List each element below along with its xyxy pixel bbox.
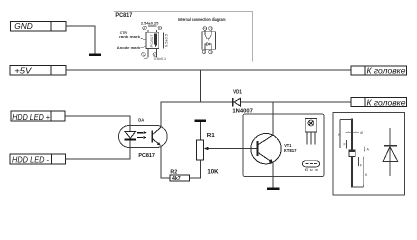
- pin number circles package: [142, 26, 162, 56]
- connector HDD LED -: [10, 154, 65, 164]
- package drawing TO-126 front view: [305, 118, 317, 144]
- dimension K right lower: [363, 157, 365, 188]
- svg-text:2.54±0.25: 2.54±0.25: [141, 21, 159, 25]
- package bottom view: [303, 161, 320, 167]
- transistor VT1: [251, 134, 281, 164]
- svg-text:К головке: К головке: [367, 66, 406, 76]
- connector GND: [11, 22, 67, 32]
- trimmer R1: [196, 140, 203, 160]
- dimension diameter: [346, 131, 360, 133]
- PC817 package outline drawing: [146, 30, 159, 57]
- svg-text:4k7: 4k7: [172, 176, 181, 182]
- svg-text:Internal connection diagram: Internal connection diagram: [178, 17, 226, 23]
- svg-text:10K: 10K: [207, 169, 219, 175]
- svg-text:PC817: PC817: [138, 153, 154, 159]
- connector К головке lower: [351, 98, 406, 107]
- diode VD1: [232, 98, 234, 107]
- internal LED symbol: [205, 42, 211, 47]
- optocoupler DA body: [119, 125, 168, 147]
- svg-text:PC817: PC817: [150, 34, 154, 47]
- internal connection diagram drawing: [202, 27, 216, 54]
- svg-text:К головке: К головке: [367, 97, 406, 107]
- svg-text:б к э: б к э: [305, 168, 319, 172]
- svg-text:rank mark: rank mark: [119, 35, 140, 39]
- opto light arrows: [137, 131, 147, 139]
- wire bar to R1 top: [199, 122, 201, 140]
- svg-text:DA: DA: [138, 118, 145, 123]
- svg-text:Ø: Ø: [360, 131, 363, 135]
- 1N4007 datasheet box: [333, 113, 405, 196]
- resistor R2: [170, 175, 190, 181]
- 1N4007 diode symbol: [389, 128, 391, 176]
- R1 wiper arrow to VT1 base: [205, 148, 258, 150]
- 1N4007 dimension drawing lead: [351, 119, 353, 188]
- wire opto collector up to VD1 line: [160, 102, 162, 128]
- opto LED: [125, 132, 135, 139]
- svg-text:VD1: VD1: [233, 90, 242, 96]
- svg-text:0.6±0.1: 0.6±0.1: [154, 57, 166, 61]
- bar terminal at R1 top: [195, 120, 207, 122]
- wire R2 to R1 bottom: [190, 177, 201, 179]
- ground VT1 emitter: [267, 188, 280, 190]
- dimension F upper: [346, 140, 348, 149]
- anode mark inside package: [154, 34, 157, 48]
- box around VT1: [243, 114, 324, 177]
- svg-text:КТ817: КТ817: [284, 148, 297, 154]
- connector К головке upper: [351, 66, 406, 75]
- svg-text:GND: GND: [14, 21, 32, 31]
- svg-text:R2: R2: [170, 170, 177, 176]
- wire opto emitter down to R2: [161, 146, 170, 179]
- svg-text:Anode mark: Anode mark: [117, 46, 141, 50]
- svg-text:PC817: PC817: [115, 12, 132, 19]
- 1N4007 body: [349, 150, 355, 157]
- dimension F lower: [358, 157, 360, 166]
- wire VD1 line left segment: [161, 101, 233, 103]
- svg-text:R1: R1: [207, 133, 216, 139]
- wire VD1 line right segment: [241, 101, 351, 103]
- svg-text:6.5±0.5: 6.5±0.5: [165, 34, 169, 47]
- opto phototransistor: [151, 131, 153, 143]
- wire opto cathode to HDD LED-: [65, 140, 130, 159]
- datasheet frame: [114, 11, 253, 61]
- wire +5V rail: [66, 69, 351, 71]
- wire VT1 emitter to ground: [272, 163, 274, 188]
- ground GND: [89, 53, 101, 56]
- dimension 6.5 right: [163, 32, 165, 48]
- svg-text:VT1: VT1: [284, 143, 292, 148]
- svg-text:HDD LED +: HDD LED +: [12, 112, 50, 122]
- wire VT1 collector: [272, 102, 274, 136]
- connector +5V: [10, 66, 66, 76]
- wire R1 bottom: [199, 160, 201, 179]
- connector HDD LED +: [11, 111, 65, 121]
- svg-text:HDD LED -: HDD LED -: [12, 155, 49, 165]
- wire GND box to ground: [66, 26, 95, 54]
- svg-text:+5V: +5V: [14, 66, 32, 76]
- dimension K left: [339, 120, 341, 149]
- wire HDD LED+ to opto anode: [65, 116, 130, 132]
- wire +5V drop to VD1 line: [200, 70, 202, 102]
- dimension A right: [364, 147, 366, 152]
